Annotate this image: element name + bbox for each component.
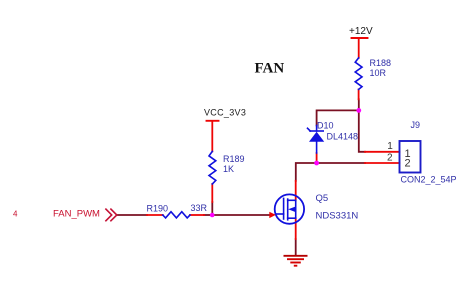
svg-text:33R: 33R [191,203,208,213]
svg-text:Q5: Q5 [316,193,329,204]
svg-text:DL4148: DL4148 [327,132,359,142]
svg-text:FAN: FAN [255,61,285,77]
svg-text:1K: 1K [223,164,234,174]
svg-text:1: 1 [387,141,393,152]
svg-text:2: 2 [405,158,411,170]
svg-text:FAN_PWM: FAN_PWM [53,209,100,220]
svg-text:NDS331N: NDS331N [316,211,359,222]
svg-text:D10: D10 [317,121,334,131]
svg-text:CON2_2_54P: CON2_2_54P [401,175,457,185]
svg-text:R188: R188 [370,58,392,68]
svg-text:2: 2 [387,152,393,163]
svg-text:4: 4 [13,209,18,218]
svg-text:R190: R190 [147,203,169,213]
svg-text:10R: 10R [370,68,387,78]
svg-text:+12V: +12V [349,26,373,37]
svg-text:R189: R189 [223,154,245,164]
svg-text:VCC_3V3: VCC_3V3 [204,108,246,118]
svg-text:J9: J9 [411,120,421,130]
